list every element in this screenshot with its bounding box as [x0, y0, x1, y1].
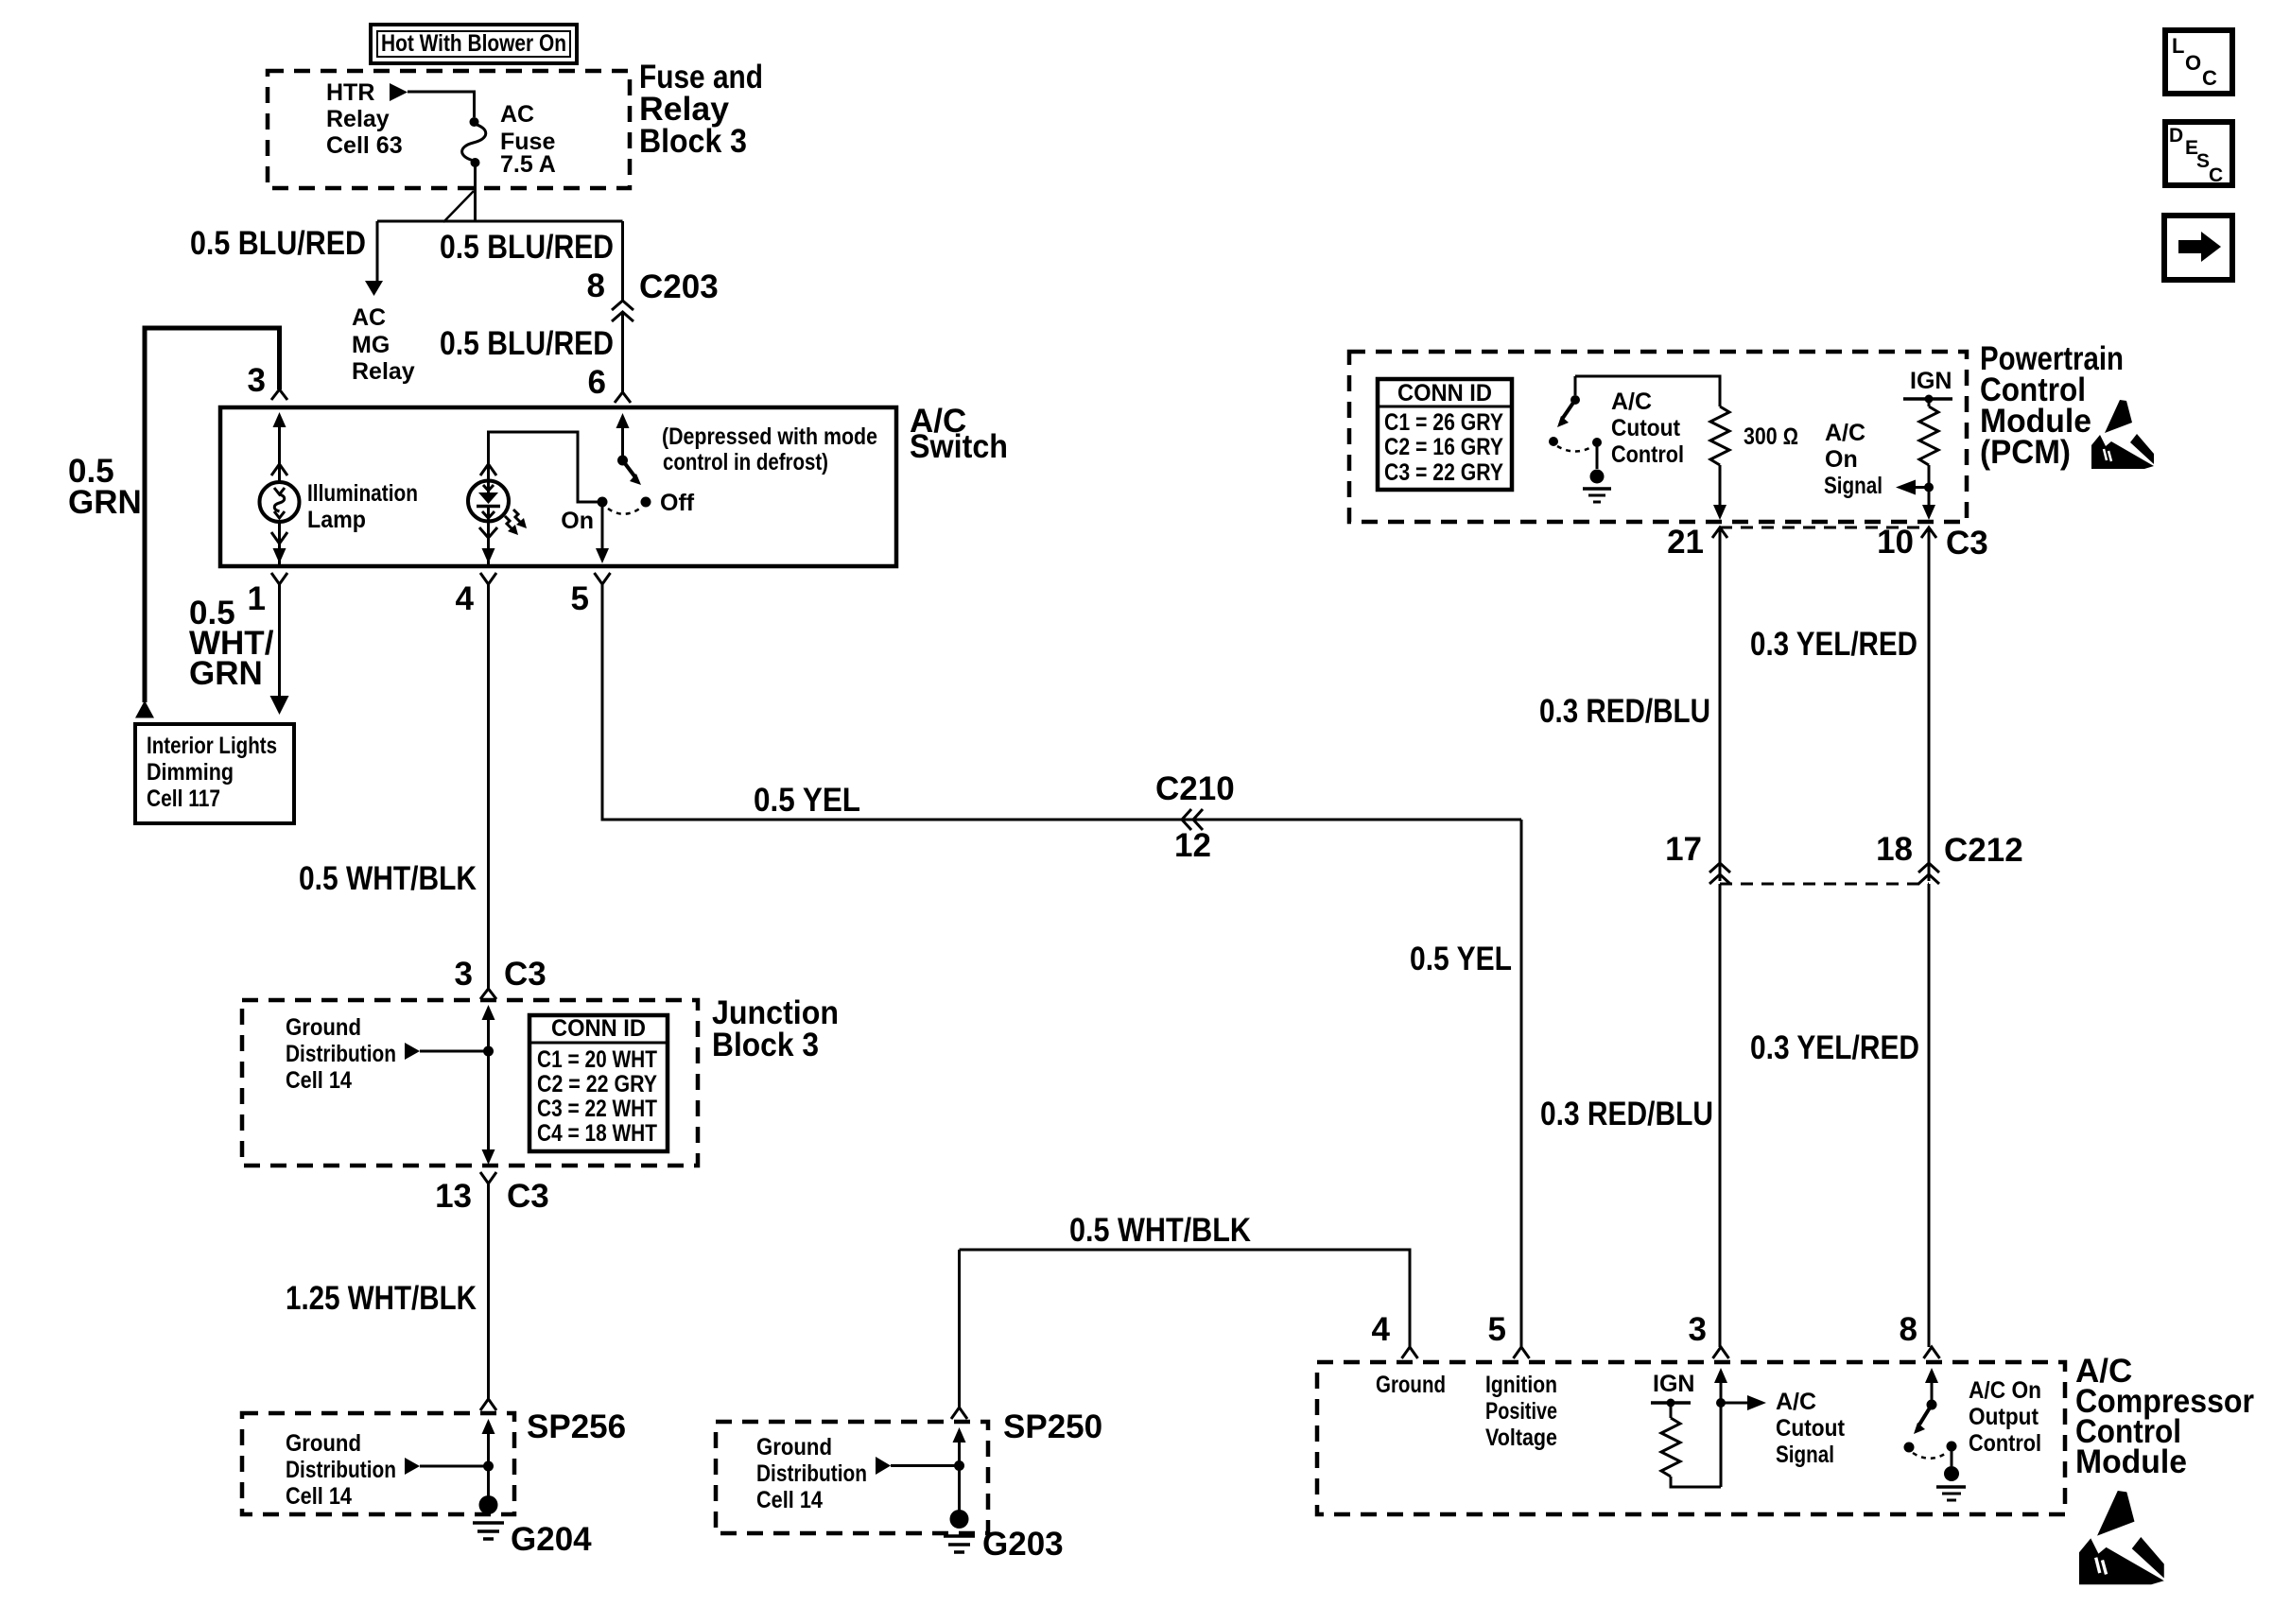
switch pivot dot	[617, 456, 628, 466]
svg-text:C4 = 18 WHT: C4 = 18 WHT	[537, 1120, 657, 1147]
label Powertrain Control Module (PCM)	[1980, 340, 2124, 471]
SP256 junction dot	[483, 1461, 494, 1472]
label A/C On Output Control	[1969, 1377, 2041, 1457]
svg-text:C203: C203	[639, 268, 719, 305]
forward arrow icon box	[2164, 216, 2232, 280]
LED branch arrow out of box	[482, 548, 495, 563]
junction dot	[483, 1046, 494, 1057]
svg-text:Ground: Ground	[1376, 1372, 1446, 1398]
wire pin21 to C212 pin17	[1719, 529, 1722, 881]
svg-text:C3: C3	[504, 956, 547, 993]
wire pin4 down to junction block	[487, 584, 490, 989]
svg-text:Cell 14: Cell 14	[286, 1483, 352, 1510]
wire C212 pin18 to compressor pin 8	[1928, 884, 1931, 1347]
svg-text:10: 10	[1877, 524, 1914, 561]
LOC icon box	[2165, 30, 2232, 94]
label Ignition Positive Voltage (pin 5)	[1485, 1372, 1557, 1451]
A/C cutout control switch (PCM)	[1549, 376, 1611, 502]
svg-text:Illumination: Illumination	[307, 480, 418, 507]
pin 5 chevron below box	[595, 573, 611, 584]
pin 6 chevron	[615, 392, 631, 403]
wire 0.5 YEL down to compressor pin 5	[1520, 820, 1523, 1347]
svg-text:Cutout: Cutout	[1611, 415, 1681, 441]
svg-text:3: 3	[455, 956, 473, 993]
svg-text:0.5 YEL: 0.5 YEL	[1410, 941, 1512, 977]
svg-text:O: O	[2185, 51, 2201, 75]
wire C212 pin17 to compressor pin 3	[1719, 884, 1722, 1347]
wire right branch down to C203	[621, 221, 624, 301]
ground G203	[944, 1510, 975, 1552]
svg-text:Lamp: Lamp	[307, 507, 366, 533]
svg-text:4: 4	[456, 580, 475, 617]
pin 3 junction dot	[1716, 1398, 1726, 1408]
junction block internal wire with arrows	[482, 1005, 495, 1020]
LED lower chevron	[479, 527, 497, 538]
svg-text:0.5 BLU/RED: 0.5 BLU/RED	[440, 229, 614, 266]
PCM connector C3 pins	[1712, 527, 1727, 538]
svg-text:Ignition: Ignition	[1485, 1372, 1557, 1398]
svg-text:C3 = 22 WHT: C3 = 22 WHT	[537, 1096, 657, 1122]
A/C On Signal node	[1928, 465, 1931, 505]
svg-text:S: S	[2196, 150, 2210, 172]
wire pin3 loop to left	[145, 328, 280, 702]
svg-text:On: On	[1825, 446, 1858, 473]
terminal slash	[443, 191, 474, 222]
svg-text:Cell 14: Cell 14	[286, 1067, 352, 1094]
ground distribution feed arrow	[405, 1043, 420, 1060]
label (Depressed with mode control in defrost)	[662, 423, 877, 475]
A/C cutout signal arrow	[1721, 1402, 1747, 1405]
resistor 300 ohm	[1710, 406, 1729, 465]
svg-text:12: 12	[1174, 827, 1211, 864]
arrow into interior lights box	[270, 696, 289, 715]
LED branch chevron upper	[480, 464, 496, 475]
On contact dot	[598, 497, 608, 508]
svg-text:AC: AC	[352, 304, 386, 331]
wire C203 to pin 6	[621, 312, 624, 392]
svg-text:Module: Module	[2075, 1443, 2187, 1480]
wire pin1 down	[278, 584, 281, 697]
IGN supply (PCM)	[1903, 368, 1952, 406]
svg-text:1: 1	[248, 580, 266, 617]
svg-text:4: 4	[1372, 1311, 1391, 1348]
svg-text:(PCM): (PCM)	[1980, 434, 2071, 471]
switch lever	[623, 460, 636, 477]
Off contact dot	[641, 497, 651, 508]
svg-text:3: 3	[248, 362, 266, 399]
wire to SP256	[487, 1183, 490, 1399]
svg-text:A/C: A/C	[1611, 389, 1652, 415]
svg-text:C1 = 26 GRY: C1 = 26 GRY	[1384, 409, 1503, 436]
arrow down to pin 10	[1922, 505, 1935, 520]
switch output wire down	[601, 502, 604, 548]
svg-text:C1 = 20 WHT: C1 = 20 WHT	[537, 1046, 657, 1073]
pin 1 chevron below box	[271, 573, 287, 584]
Fuse and Relay Block 3 dashed box	[268, 71, 630, 188]
Hot With Blower On banner	[371, 25, 577, 63]
label Illumination Lamp	[307, 480, 418, 533]
svg-text:GRN: GRN	[68, 484, 142, 521]
svg-text:MG: MG	[352, 332, 390, 358]
svg-text:C2 = 16 GRY: C2 = 16 GRY	[1384, 434, 1503, 460]
pin 4 chevron below box	[480, 573, 496, 584]
label Ground Distribution Cell 14	[286, 1014, 396, 1094]
svg-text:G204: G204	[511, 1521, 592, 1558]
svg-text:(Depressed with mode: (Depressed with mode	[662, 423, 877, 450]
svg-text:0.3 RED/BLU: 0.3 RED/BLU	[1539, 693, 1710, 730]
compressor pin chevrons	[1402, 1347, 1418, 1358]
SP256 internal arrow up	[482, 1419, 495, 1434]
svg-text:Signal: Signal	[1824, 473, 1883, 499]
ground G204	[473, 1495, 504, 1539]
HTR Relay Cell 63 label	[326, 79, 403, 159]
compressor pin 8 switch	[1904, 1368, 1967, 1500]
svg-text:17: 17	[1665, 831, 1702, 868]
label AC MG Relay	[352, 304, 415, 385]
svg-text:Distribution: Distribution	[286, 1041, 396, 1067]
switch S1 pivot feed from pin 6	[616, 413, 630, 428]
wire fuse down to split	[474, 166, 477, 221]
C203 double chevron	[612, 301, 633, 321]
0.5 GRN feed arrow up	[135, 700, 154, 718]
illumination lamp branch arrow into box	[273, 412, 286, 427]
LED wire top run to switch On node	[489, 432, 599, 502]
resistor bottom tie to pin 3 wire	[1671, 1477, 1721, 1487]
svg-text:On: On	[561, 508, 594, 534]
HTR relay feed arrow	[390, 83, 408, 101]
svg-text:CONN ID: CONN ID	[551, 1015, 646, 1042]
svg-text:Signal: Signal	[1776, 1442, 1834, 1468]
svg-text:3: 3	[1689, 1311, 1707, 1348]
label AC Fuse 7.5 A	[500, 101, 556, 178]
svg-text:Distribution: Distribution	[286, 1457, 396, 1483]
arrow down to AC MG Relay	[365, 281, 383, 296]
svg-text:SP256: SP256	[527, 1408, 626, 1445]
svg-text:C212: C212	[1944, 832, 2023, 869]
svg-text:Ground: Ground	[286, 1430, 361, 1457]
illumination lamp I1	[260, 482, 300, 522]
wire from HTR arrow to fuse	[408, 92, 475, 117]
label Ground Distribution Cell 14 (SP256)	[286, 1430, 396, 1510]
svg-text:IGN: IGN	[1653, 1371, 1694, 1397]
svg-text:0.5 WHT/BLK: 0.5 WHT/BLK	[299, 860, 477, 897]
label A/C Compressor Control Module	[2075, 1353, 2254, 1480]
svg-text:CONN ID: CONN ID	[1397, 380, 1492, 406]
svg-text:Ground: Ground	[756, 1434, 832, 1460]
svg-text:A/C On: A/C On	[1969, 1377, 2041, 1404]
svg-text:SP250: SP250	[1003, 1408, 1102, 1445]
svg-text:7.5 A: 7.5 A	[500, 151, 556, 178]
svg-text:C: C	[2202, 66, 2217, 90]
svg-text:Interior Lights: Interior Lights	[147, 733, 277, 759]
wire SP250 riser from 0.5 WHT/BLK run	[958, 1250, 961, 1408]
svg-text:Positive: Positive	[1485, 1398, 1557, 1425]
wire 0.5 WHT/BLK run to compressor pin 4	[960, 1250, 1411, 1347]
lamp upper chevron	[271, 464, 287, 475]
svg-text:AC: AC	[500, 101, 534, 128]
A/C Switch box	[220, 407, 896, 566]
svg-text:8: 8	[1900, 1311, 1917, 1348]
svg-text:0.3 RED/BLU: 0.3 RED/BLU	[1540, 1096, 1713, 1132]
svg-text:0.5 YEL: 0.5 YEL	[754, 782, 860, 819]
svg-text:C2 = 22 GRY: C2 = 22 GRY	[537, 1071, 657, 1097]
SP256 ground distribution arrow	[405, 1458, 420, 1475]
SP250 ground distribution arrow	[876, 1457, 891, 1475]
svg-text:GRN: GRN	[189, 655, 263, 692]
label A/C On Signal	[1824, 420, 1883, 499]
svg-text:control in defrost): control in defrost)	[663, 449, 828, 475]
svg-text:Control: Control	[1969, 1430, 2041, 1457]
SP250 junction dot	[954, 1460, 964, 1471]
Powertrain Control Module dashed box	[1349, 352, 1967, 522]
label 0.5 GRN	[68, 453, 142, 521]
label Fuse and Relay Block 3	[639, 59, 763, 160]
C3 pin tie dashed line	[1720, 527, 1929, 529]
svg-text:8: 8	[587, 268, 605, 304]
svg-text:C3: C3	[1946, 525, 1988, 561]
IGN resistor (PCM)	[1919, 406, 1938, 465]
svg-text:C210: C210	[1155, 770, 1235, 807]
C212 tie dashed line	[1720, 883, 1929, 886]
Interior Lights Dimming Cell 117 box	[135, 724, 294, 823]
svg-text:A/C: A/C	[1825, 420, 1865, 446]
junction block bottom chevron	[480, 1172, 496, 1183]
svg-text:Relay: Relay	[352, 358, 415, 385]
svg-text:C3 = 22 GRY: C3 = 22 GRY	[1384, 459, 1503, 486]
svg-text:300 Ω: 300 Ω	[1744, 423, 1798, 450]
left branch wire down to AC MG Relay	[376, 221, 379, 283]
svg-text:0.5 WHT/BLK: 0.5 WHT/BLK	[1069, 1212, 1251, 1249]
svg-text:C3: C3	[507, 1178, 549, 1215]
lamp lower chevron	[271, 532, 287, 544]
fuse AC Fuse 7.5 A	[462, 117, 486, 167]
svg-text:0.5 BLU/RED: 0.5 BLU/RED	[190, 225, 366, 262]
C212 double chevrons	[1709, 863, 1730, 884]
svg-text:HTR: HTR	[326, 79, 374, 106]
svg-text:Voltage: Voltage	[1485, 1425, 1557, 1451]
CONN ID table (PCM)	[1378, 379, 1512, 490]
wire split horizontal	[377, 220, 623, 223]
svg-text:A/C: A/C	[1776, 1389, 1816, 1415]
label 0.5 WHT/ GRN	[189, 595, 274, 692]
DESC icon box	[2165, 122, 2232, 186]
svg-text:D: D	[2169, 125, 2183, 147]
resistor 300 ohm wire top	[1575, 376, 1720, 406]
svg-text:Cutout: Cutout	[1776, 1415, 1846, 1442]
svg-text:Ground: Ground	[286, 1014, 361, 1041]
svg-text:G203: G203	[982, 1526, 1064, 1563]
SP256 chevron	[480, 1399, 496, 1410]
pin 3 chevron	[271, 389, 287, 400]
Junction Block 3 dashed box	[242, 1000, 698, 1166]
svg-text:Cell 14: Cell 14	[756, 1487, 823, 1513]
wire pin10 to C212 pin18	[1928, 529, 1931, 881]
svg-text:C: C	[2209, 164, 2223, 186]
svg-text:Switch: Switch	[910, 428, 1008, 465]
svg-text:L: L	[2172, 34, 2184, 58]
lamp branch arrow out of box	[273, 548, 286, 563]
resistor output arrow down to pin 21	[1719, 465, 1722, 505]
svg-text:0.3 YEL/RED: 0.3 YEL/RED	[1750, 626, 1917, 663]
svg-text:Distribution: Distribution	[756, 1460, 867, 1487]
svg-text:Control: Control	[1611, 441, 1684, 468]
svg-text:5: 5	[1488, 1311, 1506, 1348]
LED D1	[468, 481, 527, 536]
compressor pin 3 internal arrow	[1714, 1368, 1727, 1383]
wire pin5 down and right to C210	[602, 584, 1521, 820]
SP250 chevron	[951, 1408, 967, 1419]
IGN resistor (compressor)	[1661, 1418, 1680, 1477]
svg-text:IGN: IGN	[1910, 368, 1952, 394]
C210 double chevron	[1182, 809, 1203, 830]
svg-text:Cell 63: Cell 63	[326, 132, 403, 159]
svg-text:Dimming: Dimming	[147, 759, 234, 786]
SP256 dashed box	[242, 1413, 514, 1514]
junction block top chevron	[480, 989, 496, 999]
switch travel dashed arc	[608, 508, 641, 514]
label Junction Block 3	[712, 994, 839, 1063]
SP250 dashed box	[716, 1422, 988, 1533]
svg-text:0.5 BLU/RED: 0.5 BLU/RED	[440, 325, 614, 362]
label A/C Switch	[910, 403, 1008, 465]
svg-text:18: 18	[1876, 831, 1913, 868]
ESD symbol (compressor)	[2079, 1491, 2164, 1584]
svg-text:13: 13	[435, 1178, 472, 1215]
svg-text:Cell 117: Cell 117	[147, 786, 220, 812]
label Ground Distribution Cell 14 (SP250)	[756, 1434, 867, 1513]
IGN supply (compressor)	[1651, 1371, 1694, 1418]
label A/C Cutout Signal	[1776, 1389, 1846, 1468]
svg-text:Output: Output	[1969, 1404, 2039, 1430]
svg-text:0.3 YEL/RED: 0.3 YEL/RED	[1750, 1029, 1919, 1066]
svg-text:Block 3: Block 3	[639, 123, 747, 160]
svg-text:Block 3: Block 3	[712, 1027, 819, 1063]
svg-text:6: 6	[588, 364, 606, 401]
svg-text:Off: Off	[660, 490, 695, 516]
CONN ID table (junction block)	[529, 1015, 668, 1151]
svg-text:Hot With Blower On: Hot With Blower On	[381, 30, 566, 57]
label A/C Cutout Control	[1611, 389, 1684, 468]
svg-text:1.25 WHT/BLK: 1.25 WHT/BLK	[286, 1280, 477, 1317]
SP250 internal arrow up	[953, 1427, 966, 1443]
A/C Compressor Control Module dashed box	[1317, 1362, 2065, 1514]
svg-text:Relay: Relay	[326, 106, 390, 132]
svg-text:5: 5	[571, 580, 589, 617]
svg-text:21: 21	[1667, 524, 1704, 561]
